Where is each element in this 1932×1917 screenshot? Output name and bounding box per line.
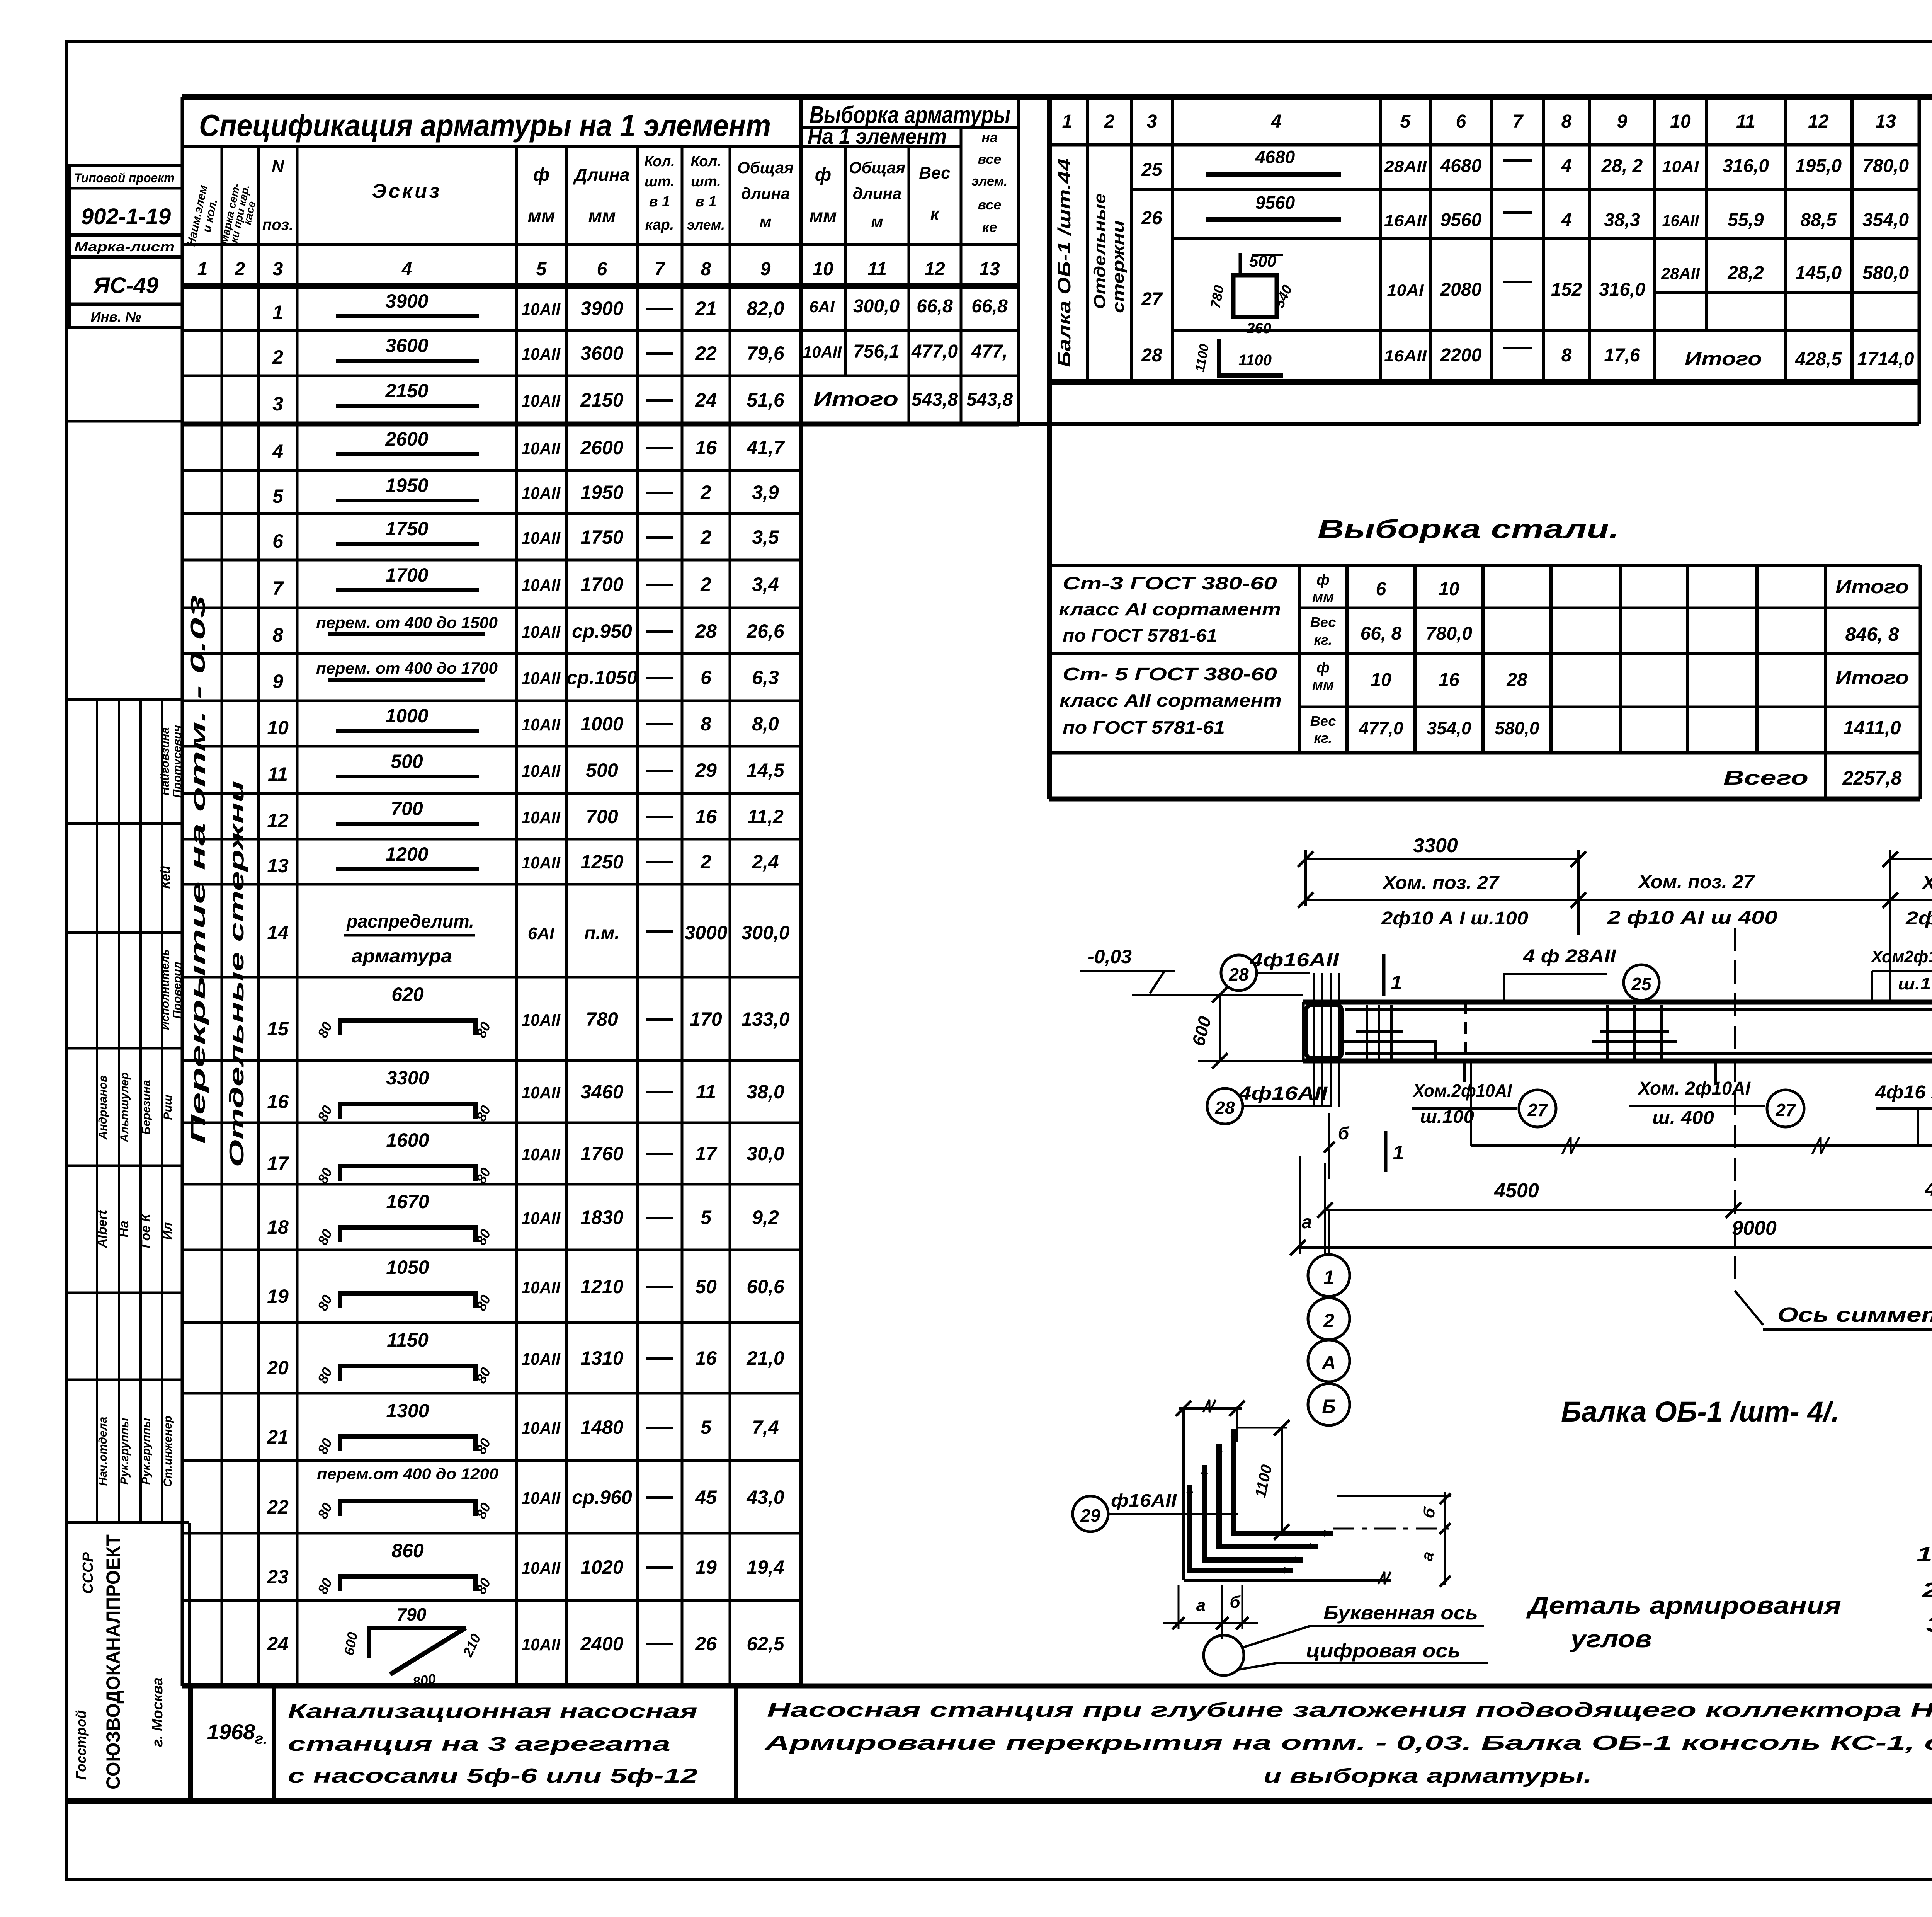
svg-text:10АI: 10АI [1387, 281, 1424, 299]
svg-text:арматура: арматура [352, 946, 452, 967]
beam: top dim 3300 right [1890, 858, 1932, 860]
svg-text:1250: 1250 [580, 851, 623, 873]
svg-text:580,0: 580,0 [1495, 718, 1539, 738]
svg-text:3: 3 [273, 259, 283, 279]
svg-text:4500: 4500 [1494, 1180, 1539, 1202]
title block frame [182, 1684, 1932, 1689]
svg-text:11: 11 [867, 259, 887, 279]
svg-text:Вес: Вес [1310, 614, 1336, 630]
svg-text:Кол.: Кол. [644, 153, 675, 170]
svg-text:16АII: 16АII [1662, 211, 1699, 230]
svg-text:780,0: 780,0 [1426, 623, 1472, 644]
svg-text:ср.960: ср.960 [572, 1486, 632, 1508]
svg-text:1950: 1950 [385, 475, 428, 496]
svg-text:1760: 1760 [580, 1143, 623, 1165]
beam: stirrup group middle [1606, 1005, 1609, 1059]
svg-text:1210: 1210 [580, 1276, 623, 1297]
svg-text:50: 50 [695, 1276, 717, 1297]
svg-text:3: 3 [272, 393, 283, 415]
svg-text:Ст.инженер: Ст.инженер [162, 1416, 174, 1487]
svg-text:перем. от 400 до 1700: перем. от 400 до 1700 [316, 659, 498, 677]
svg-text:3,9: 3,9 [752, 482, 779, 503]
corner detail: axis circle [1204, 1635, 1244, 1675]
svg-text:8: 8 [1561, 111, 1572, 132]
svg-text:17,6: 17,6 [1604, 345, 1640, 366]
svg-text:780,0: 780,0 [1862, 156, 1909, 176]
svg-text:41,7: 41,7 [746, 437, 785, 458]
svg-text:ф: ф [1316, 660, 1330, 676]
svg-text:Исполнитель: Исполнитель [159, 949, 172, 1030]
svg-text:Итого: Итого [1685, 348, 1762, 369]
svg-text:СССР: СССР [80, 1552, 96, 1594]
svg-text:860: 860 [391, 1540, 424, 1561]
corner detail: 1100 dim [1281, 1428, 1283, 1532]
svg-text:мм: мм [1312, 589, 1334, 606]
svg-text:класс АI сортамент: класс АI сортамент [1059, 599, 1281, 619]
svg-text:цифровая ось: цифровая ось [1306, 1640, 1461, 1662]
svg-text:5: 5 [701, 1207, 712, 1228]
svg-text:Выборка стали.: Выборка стали. [1318, 514, 1619, 544]
beam: left end cage [1306, 1005, 1342, 1058]
svg-text:62,5: 62,5 [747, 1633, 785, 1655]
svg-text:1670: 1670 [386, 1191, 429, 1212]
svg-text:1000: 1000 [580, 713, 623, 735]
left strip box: ЯС-49 [70, 257, 182, 304]
right table outer verticals [1047, 97, 1052, 799]
svg-text:м: м [871, 213, 883, 231]
svg-text:8: 8 [272, 624, 283, 646]
beam: pos 28 top-left [1221, 955, 1257, 991]
svg-text:СОЮЗВОДОКАНАЛПРОЕКТ: СОЮЗВОДОКАНАЛПРОЕКТ [102, 1534, 124, 1789]
svg-text:2600: 2600 [385, 428, 428, 450]
svg-text:9: 9 [272, 671, 283, 692]
svg-text:9: 9 [1617, 111, 1628, 132]
svg-text:700: 700 [586, 806, 618, 827]
svg-text:2: 2 [700, 851, 711, 873]
svg-text:класс АII сортамент: класс АII сортамент [1060, 690, 1282, 710]
svg-text:21: 21 [695, 298, 717, 319]
svg-text:22: 22 [267, 1496, 289, 1518]
svg-text:2ф10 А I ш.100: 2ф10 А I ш.100 [1381, 908, 1528, 929]
svg-text:9: 9 [760, 259, 771, 279]
svg-text:16: 16 [1439, 670, 1459, 690]
svg-text:ф: ф [1316, 572, 1330, 588]
svg-text:Марка-лист: Марка-лист [74, 240, 175, 254]
svg-text:6: 6 [1376, 579, 1386, 599]
svg-text:10АII: 10АII [522, 669, 561, 688]
svg-text:г.: г. [255, 1730, 267, 1747]
svg-text:3. Расход бетона: для плиты: 3. Расход бетона: для плиты: 5,11 м³ [1926, 1613, 1932, 1636]
svg-text:10АII: 10АII [522, 853, 561, 872]
svg-text:11,2: 11,2 [747, 806, 784, 827]
svg-text:9000: 9000 [1732, 1217, 1777, 1239]
svg-text:15: 15 [267, 1018, 289, 1040]
svg-text:шт.: шт. [645, 174, 675, 190]
svg-text:поз.: поз. [262, 216, 293, 233]
beam: section mark 1 top-left [1382, 954, 1386, 996]
left strip box: Типовой проект [70, 165, 182, 188]
svg-text:1: 1 [1393, 1142, 1404, 1164]
svg-text:10АII: 10АII [522, 762, 561, 781]
svg-text:Ст- 5 ГОСТ 380-60: Ст- 5 ГОСТ 380-60 [1063, 664, 1277, 684]
svg-text:79,6: 79,6 [747, 342, 785, 364]
spec table vertical lines [221, 146, 223, 1685]
svg-text:2,4: 2,4 [752, 851, 779, 873]
svg-text:10АII: 10АII [522, 1209, 561, 1228]
beam: dim 4500 4500 [1325, 1209, 1932, 1211]
svg-text:1150: 1150 [387, 1329, 429, 1351]
svg-text:260: 260 [1246, 320, 1271, 337]
svg-text:10АII: 10АII [522, 392, 561, 410]
svg-text:1300: 1300 [386, 1400, 429, 1422]
svg-text:Вес: Вес [919, 163, 950, 182]
beam: dim 9000 [1298, 1246, 1932, 1249]
svg-text:Армирование перекрытия на о: Армирование перекрытия на отм. - 0,03. Б… [764, 1732, 1932, 1754]
svg-text:28: 28 [695, 620, 717, 642]
svg-text:2. Таблицу размеров „а” и „б: 2. Таблицу размеров „а” и „б” см. лист А… [1922, 1578, 1932, 1602]
svg-text:11: 11 [696, 1081, 716, 1103]
svg-text:3: 3 [1147, 111, 1157, 132]
svg-text:4ф16АII: 4ф16АII [1238, 1083, 1328, 1104]
svg-text:2150: 2150 [580, 389, 623, 411]
svg-text:477,: 477, [971, 341, 1007, 362]
svg-text:7: 7 [272, 577, 284, 599]
svg-text:4: 4 [272, 441, 283, 462]
svg-text:Хом. 2ф10АI: Хом. 2ф10АI [1637, 1078, 1751, 1099]
svg-text:14: 14 [267, 922, 289, 943]
svg-text:7,4: 7,4 [752, 1416, 779, 1438]
svg-text:543,8: 543,8 [966, 390, 1013, 410]
svg-text:16: 16 [695, 1347, 717, 1369]
svg-text:в 1: в 1 [649, 194, 670, 210]
svg-text:28, 2: 28, 2 [1601, 156, 1643, 176]
svg-text:Рук.группы: Рук.группы [140, 1418, 153, 1485]
svg-text:Общая: Общая [737, 158, 794, 177]
svg-text:2: 2 [272, 346, 283, 368]
corner detail: pos 29 [1073, 1496, 1108, 1532]
spec table horizontal row lines [184, 329, 1019, 332]
svg-text:10АII: 10АII [522, 1635, 561, 1654]
svg-text:60,6: 60,6 [747, 1276, 785, 1297]
svg-text:790: 790 [397, 1604, 427, 1624]
svg-text:500: 500 [391, 751, 423, 772]
svg-text:5: 5 [272, 485, 284, 507]
svg-text:21,0: 21,0 [746, 1347, 784, 1369]
svg-text:14,5: 14,5 [747, 759, 785, 781]
svg-text:все: все [978, 197, 1002, 213]
svg-text:А: А [1321, 1352, 1336, 1374]
svg-text:Кей: Кей [158, 866, 173, 889]
svg-text:N: N [272, 157, 284, 176]
svg-text:ш.100: ш.100 [1898, 974, 1932, 993]
svg-text:Андрианов: Андрианов [97, 1075, 109, 1140]
svg-text:Типовой проект: Типовой проект [74, 171, 175, 186]
svg-text:5: 5 [701, 1416, 712, 1438]
svg-text:Общая: Общая [849, 158, 905, 177]
svg-text:16: 16 [267, 1091, 289, 1112]
drawing frame thick top [182, 94, 1932, 100]
svg-text:19: 19 [267, 1285, 289, 1307]
svg-text:ф16АII: ф16АII [1111, 1490, 1177, 1510]
svg-text:а: а [1196, 1596, 1206, 1615]
svg-text:Нач.отдела: Нач.отдела [97, 1417, 109, 1486]
svg-text:195,0: 195,0 [1795, 156, 1842, 176]
svg-text:3900: 3900 [580, 298, 623, 319]
svg-text:ср.1050: ср.1050 [566, 667, 638, 688]
svg-text:28,2: 28,2 [1727, 263, 1764, 283]
svg-text:30,0: 30,0 [747, 1143, 784, 1165]
svg-text:и выборка арматуры.: и выборка арматуры. [1264, 1765, 1592, 1787]
svg-text:316,0: 316,0 [1599, 279, 1645, 300]
svg-text:82,0: 82,0 [747, 298, 784, 319]
steel table verticals [1298, 565, 1301, 753]
svg-text:10АII: 10АII [522, 808, 561, 827]
svg-text:по ГОСТ 5781-61: по ГОСТ 5781-61 [1063, 625, 1217, 645]
svg-text:780: 780 [586, 1008, 618, 1030]
svg-text:133,0: 133,0 [741, 1008, 789, 1030]
svg-text:4680: 4680 [1440, 156, 1482, 176]
svg-text:2: 2 [700, 482, 711, 503]
svg-text:3300: 3300 [386, 1067, 429, 1089]
svg-text:10АII: 10АII [522, 1011, 561, 1030]
svg-text:28АII: 28АII [1384, 157, 1427, 175]
svg-text:Albert: Albert [95, 1209, 110, 1248]
svg-text:Б: Б [1322, 1396, 1335, 1417]
svg-text:10: 10 [813, 259, 833, 279]
svg-text:700: 700 [391, 798, 423, 819]
svg-text:12: 12 [1808, 111, 1829, 132]
svg-text:4 ф 28АII: 4 ф 28АII [1523, 946, 1617, 967]
svg-text:1000: 1000 [385, 705, 428, 727]
svg-text:элем.: элем. [687, 217, 725, 233]
svg-text:Всего: Всего [1723, 767, 1808, 789]
svg-text:16: 16 [695, 437, 717, 458]
svg-text:10АII: 10АII [522, 439, 561, 458]
svg-text:21: 21 [267, 1426, 289, 1448]
svg-text:29: 29 [1080, 1505, 1100, 1525]
svg-text:2: 2 [700, 526, 711, 548]
svg-text:мм: мм [1312, 677, 1334, 693]
svg-text:с насосами 5ф-6 или 5ф-12: с насосами 5ф-6 или 5ф-12 [288, 1765, 697, 1787]
svg-text:перем. от 400 до 1500: перем. от 400 до 1500 [316, 613, 498, 632]
svg-text:1600: 1600 [386, 1129, 429, 1151]
svg-text:10АII: 10АII [522, 1145, 561, 1164]
svg-text:22: 22 [695, 342, 717, 364]
svg-text:29: 29 [695, 759, 717, 781]
svg-text:9560: 9560 [1255, 192, 1295, 213]
svg-text:16АII: 16АII [1384, 347, 1427, 365]
svg-text:стержни: стержни [1109, 220, 1127, 313]
svg-text:в 1: в 1 [696, 194, 717, 210]
svg-text:мм: мм [588, 206, 616, 226]
svg-text:12: 12 [924, 259, 945, 279]
svg-text:6: 6 [1456, 111, 1466, 132]
svg-text:Рук.группы: Рук.группы [118, 1418, 131, 1485]
svg-text:2ф10 АI ш. 100: 2ф10 АI ш. 100 [1905, 908, 1932, 929]
svg-text:кар.: кар. [645, 217, 674, 233]
corner detail: right dim a b [1444, 1492, 1446, 1585]
svg-text:543,8: 543,8 [912, 390, 958, 410]
svg-text:12: 12 [267, 810, 289, 831]
svg-text:3600: 3600 [385, 335, 428, 356]
svg-text:1310: 1310 [580, 1347, 623, 1369]
beam: 600 dim left [1219, 995, 1221, 1061]
svg-text:б: б [1338, 1123, 1350, 1143]
svg-text:Канализационная насосная: Канализационная насосная [288, 1700, 697, 1723]
svg-text:перем.от 400 до 1200: перем.от 400 до 1200 [317, 1466, 498, 1483]
svg-text:7: 7 [1513, 111, 1524, 132]
svg-text:27: 27 [1775, 1100, 1796, 1120]
svg-text:6: 6 [597, 259, 607, 279]
left strip grid rows [66, 698, 182, 701]
svg-text:10АII: 10АII [522, 345, 561, 364]
svg-text:26: 26 [695, 1633, 717, 1655]
svg-text:1480: 1480 [580, 1416, 623, 1438]
svg-text:1950: 1950 [580, 482, 623, 503]
svg-text:8: 8 [1561, 345, 1572, 366]
svg-text:28: 28 [1141, 345, 1162, 366]
svg-text:1968: 1968 [207, 1720, 255, 1744]
steel table horizontals [1299, 607, 1920, 609]
svg-text:6: 6 [701, 667, 712, 688]
svg-text:10АII: 10АII [522, 1559, 561, 1578]
svg-text:Альтшулер: Альтшулер [118, 1073, 131, 1143]
svg-text:20: 20 [267, 1357, 289, 1379]
svg-text:1: 1 [1323, 1267, 1334, 1288]
svg-text:5: 5 [1400, 111, 1411, 132]
svg-text:Ил: Ил [160, 1222, 175, 1240]
beam: inner rebar lines [1345, 1008, 1932, 1011]
svg-text:3460: 3460 [580, 1081, 623, 1103]
svg-text:10АII: 10АII [522, 715, 561, 734]
svg-text:10: 10 [1371, 670, 1391, 690]
svg-text:2400: 2400 [580, 1633, 623, 1655]
svg-text:316,0: 316,0 [1723, 156, 1769, 176]
right table inner verticals [1086, 97, 1089, 382]
svg-text:Найговзина: Найговзина [159, 727, 172, 795]
beam: section mark 1 bottom-left [1384, 1131, 1388, 1172]
steel table frame [1919, 565, 1922, 799]
svg-text:66,8: 66,8 [917, 296, 953, 317]
svg-text:-0,03: -0,03 [1088, 946, 1132, 967]
svg-text:2: 2 [700, 574, 711, 595]
beam: axis circles left [1328, 1210, 1330, 1255]
svg-text:2150: 2150 [385, 380, 428, 402]
svg-text:2257,8: 2257,8 [1842, 767, 1902, 789]
corner detail: slab lines right [1337, 1495, 1451, 1497]
svg-text:7: 7 [655, 259, 666, 279]
svg-text:45: 45 [695, 1486, 717, 1508]
svg-text:10АII: 10АII [522, 484, 561, 503]
svg-text:Хом. поз. 27: Хом. поз. 27 [1382, 873, 1500, 893]
svg-text:Хом.2ф10АI: Хом.2ф10АI [1412, 1081, 1512, 1101]
svg-text:длина: длина [853, 184, 901, 203]
svg-text:66, 8: 66, 8 [1361, 623, 1402, 644]
svg-text:10АI: 10АI [1662, 157, 1699, 175]
svg-text:16АII: 16АII [1384, 211, 1427, 230]
svg-text:ЯС-49: ЯС-49 [93, 273, 158, 298]
svg-text:элем.: элем. [972, 174, 1008, 189]
svg-text:18: 18 [267, 1216, 289, 1238]
svg-text:28: 28 [1506, 670, 1527, 690]
svg-text:Протусевич: Протусевич [171, 725, 184, 798]
frame left vertical [181, 97, 184, 1686]
svg-text:Гое К: Гое К [138, 1213, 153, 1248]
svg-text:на: на [981, 129, 998, 145]
svg-text:580,0: 580,0 [1862, 263, 1909, 283]
svg-text:23: 23 [267, 1566, 289, 1588]
svg-text:6АI: 6АI [809, 298, 835, 316]
svg-text:шт.: шт. [691, 174, 721, 190]
svg-text:11: 11 [1736, 111, 1755, 132]
svg-text:1714,0: 1714,0 [1857, 349, 1914, 369]
svg-text:2: 2 [1323, 1310, 1334, 1331]
svg-text:2: 2 [235, 259, 245, 279]
svg-text:10: 10 [1670, 111, 1691, 132]
left strip box: 902-1-19 [70, 188, 182, 235]
svg-text:25: 25 [1141, 160, 1163, 180]
svg-text:ср.950: ср.950 [572, 620, 632, 642]
svg-text:Хом. поз. 27: Хом. поз. 27 [1637, 872, 1755, 892]
svg-text:распределит.: распределит. [346, 911, 474, 932]
svg-text:10АII: 10АII [522, 1419, 561, 1438]
svg-text:3000: 3000 [684, 922, 727, 943]
svg-text:Ha: Ha [117, 1221, 131, 1237]
svg-text:1020: 1020 [580, 1556, 623, 1578]
beam: stirrup group left [1366, 1005, 1368, 1059]
svg-text:1830: 1830 [580, 1207, 623, 1228]
svg-text:13: 13 [979, 259, 1000, 279]
svg-text:756,1: 756,1 [853, 341, 900, 362]
svg-text:5: 5 [536, 259, 547, 279]
svg-text:145,0: 145,0 [1795, 263, 1842, 283]
svg-text:Отдельные: Отдельные [1090, 193, 1109, 309]
svg-text:Итого: Итого [1835, 576, 1909, 598]
svg-text:10: 10 [267, 717, 289, 739]
svg-text:43,0: 43,0 [746, 1486, 784, 1508]
svg-text:станция на 3 агрегата: станция на 3 агрегата [288, 1733, 670, 1755]
svg-text:27: 27 [1141, 289, 1163, 310]
svg-text:Инв. №: Инв. № [91, 309, 141, 325]
svg-text:38,0: 38,0 [747, 1081, 784, 1103]
svg-text:3600: 3600 [580, 342, 623, 364]
svg-text:88,5: 88,5 [1800, 210, 1837, 230]
svg-text:300,0: 300,0 [741, 922, 789, 943]
svg-text:Ось симметрии: Ось симметрии [1777, 1303, 1932, 1326]
svg-text:Риш: Риш [162, 1095, 174, 1120]
svg-text:17: 17 [267, 1153, 289, 1174]
svg-text:428,5: 428,5 [1795, 349, 1842, 369]
svg-text:1: 1 [1391, 972, 1402, 994]
svg-text:Длина: Длина [573, 165, 629, 185]
svg-text:10АII: 10АII [522, 1083, 561, 1102]
svg-text:1750: 1750 [580, 526, 623, 548]
corner detail: L-bars [1190, 1485, 1293, 1570]
svg-text:а: а [1302, 1212, 1312, 1233]
svg-text:10АII: 10АII [522, 1278, 561, 1297]
svg-text:Отдельные стержни: Отдельные стержни [226, 781, 248, 1167]
beam: outline [1303, 1000, 1932, 1005]
svg-text:1100: 1100 [1238, 352, 1272, 369]
svg-text:Хом. поз. 27: Хом. поз. 27 [1921, 873, 1932, 893]
left strip box: Марка-лист [70, 235, 182, 257]
svg-text:Буквенная ось: Буквенная ось [1323, 1602, 1478, 1624]
svg-text:26: 26 [1141, 208, 1162, 228]
svg-text:8: 8 [701, 259, 711, 279]
svg-text:1. Данный лист см. совместн: 1. Данный лист см. совместно с листами А… [1917, 1543, 1932, 1566]
svg-text:10АII: 10АII [803, 343, 842, 361]
left strip empty cell line [66, 420, 182, 423]
